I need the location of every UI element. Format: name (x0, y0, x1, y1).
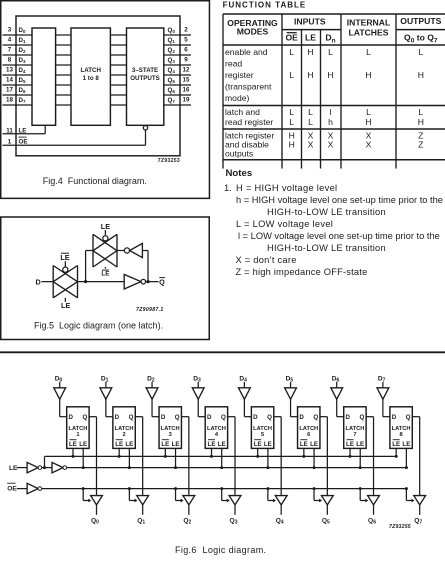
svg-text:Q5: Q5 (322, 518, 330, 526)
feedback inverter U2 (117, 243, 142, 257)
3-state output buffer Q7 (414, 496, 426, 505)
latch 4 LE-bar pin (210, 448, 213, 458)
svg-text:X: X (328, 140, 334, 150)
output Q7 pin 19 wire (164, 96, 191, 105)
svg-text:5: 5 (261, 432, 264, 438)
svg-text:Q: Q (359, 414, 364, 421)
svg-text:LE: LE (300, 441, 308, 448)
svg-text:18: 18 (6, 96, 13, 103)
table mode texts (225, 47, 274, 158)
latch 6 LE pin (313, 448, 316, 469)
svg-text:D0: D0 (19, 27, 26, 34)
input buffer D1 (100, 375, 112, 399)
latch 7 (344, 407, 366, 449)
TG2 LE-bar control (101, 267, 109, 277)
svg-text:Q3: Q3 (230, 518, 238, 526)
svg-text:1.: 1. (224, 183, 232, 193)
wire buffer to latch row 3 (56, 64, 71, 66)
net OE (42, 488, 407, 490)
latch 2 LE-bar pin (118, 448, 121, 458)
svg-text:Dn: Dn (325, 32, 335, 44)
3-state outputs block (127, 28, 164, 125)
output Q4 node (276, 505, 284, 526)
OE enable tap Q4 (266, 487, 276, 502)
input D0 pin 3 wire (3, 26, 33, 35)
wire buffer to latch row 4 (56, 74, 71, 76)
output Q2 node (183, 505, 191, 526)
wire latch 3 Q to output buffer (181, 417, 188, 496)
output Q3 pin 9 wire (164, 56, 191, 65)
svg-text:LATCH: LATCH (207, 426, 226, 432)
svg-text:7: 7 (353, 432, 356, 438)
3-state output buffer Q5 (321, 496, 333, 505)
marking 7Z90987.1 (136, 307, 164, 313)
figure frame top edge Fig.6 (0, 351, 445, 353)
OE input pin 1 with inversion bubble (3, 126, 148, 146)
table data row 3 (289, 131, 424, 150)
svg-text:D: D (207, 414, 212, 421)
wire latch 5 Q to output buffer (274, 417, 281, 496)
svg-text:LE: LE (19, 127, 27, 134)
svg-text:Q0: Q0 (91, 518, 99, 526)
OE inverter (27, 483, 42, 493)
svg-text:LE: LE (402, 441, 410, 448)
svg-text:(transparent: (transparent (225, 82, 272, 92)
output Q6 node (368, 505, 376, 526)
input buffer D2 (146, 375, 158, 399)
svg-text:D2: D2 (19, 47, 26, 54)
svg-text:L: L (289, 117, 294, 127)
svg-text:LE: LE (9, 465, 18, 472)
wire latch 7 Q to output buffer (366, 417, 373, 496)
svg-text:LE: LE (69, 441, 77, 448)
svg-text:Q1: Q1 (168, 37, 176, 44)
svg-text:D: D (36, 277, 41, 286)
svg-text:L: L (366, 47, 371, 57)
LE input pin 11 (3, 125, 46, 134)
wire TG1 output to inverter (78, 280, 125, 283)
LE inverter 2 (52, 462, 67, 472)
svg-text:LE: LE (161, 441, 169, 448)
input buffer D7 (377, 375, 389, 399)
svg-text:14: 14 (6, 76, 13, 83)
svg-text:2: 2 (122, 432, 125, 438)
wire latch 8 Q to output buffer (412, 417, 419, 496)
marking 7Z93253 (158, 158, 180, 164)
svg-text:Q4: Q4 (276, 518, 284, 526)
input buffer D0 (54, 375, 66, 399)
svg-text:LE: LE (208, 441, 216, 448)
latch 6 (298, 407, 320, 449)
svg-text:7: 7 (8, 46, 12, 53)
latch 1 LE pin (82, 448, 85, 469)
svg-text:LE: LE (218, 441, 226, 448)
wire latch to 3-state row 2 (110, 54, 126, 56)
svg-text:D0: D0 (55, 375, 63, 383)
svg-text:8: 8 (400, 432, 403, 438)
marking 7Z93255 (389, 524, 411, 530)
output inverter U3 (124, 274, 145, 289)
latch 8 LE-bar pin (395, 448, 398, 458)
OE enable tap Q3 (220, 487, 230, 502)
svg-text:15: 15 (183, 76, 190, 83)
functional diagram outer box (16, 16, 180, 156)
svg-text:D2: D2 (147, 375, 155, 383)
transmission gate TG1 (data input) (53, 266, 77, 298)
svg-text:l: l (330, 107, 332, 117)
svg-text:h: h (328, 117, 333, 127)
svg-text:INTERNAL: INTERNAL (347, 17, 390, 27)
svg-text:Q2: Q2 (168, 47, 176, 54)
output Q2 pin 6 wire (164, 46, 191, 55)
svg-text:D4: D4 (19, 67, 26, 74)
svg-text:LATCH: LATCH (161, 426, 180, 432)
3-state output buffer Q3 (229, 496, 241, 505)
svg-text:MODES: MODES (237, 26, 269, 36)
caption Fig.6 (175, 545, 266, 555)
wire D5 to latch (291, 399, 298, 416)
svg-text:Fig.6 Logic diagram.: Fig.6 Logic diagram. (175, 545, 266, 555)
svg-text:1 to 8: 1 to 8 (83, 75, 100, 82)
table header texts (227, 16, 441, 44)
notes heading (226, 168, 253, 179)
svg-text:LE: LE (61, 301, 70, 310)
svg-text:latch and: latch and (225, 107, 260, 117)
svg-text:Q: Q (129, 414, 134, 421)
OE enable tap Q1 (128, 487, 138, 502)
svg-text:H: H (307, 47, 313, 57)
wire between LE inverters (42, 467, 52, 469)
svg-text:H = HIGH voltage level: H = HIGH voltage level (236, 183, 337, 193)
wire buffer to latch row 1 (56, 44, 71, 46)
notes text (224, 183, 443, 277)
svg-text:H: H (418, 70, 424, 80)
latch 2 LE pin (128, 448, 131, 469)
TG2 LE control with bubble (101, 222, 110, 241)
svg-text:LE: LE (79, 441, 87, 448)
input D6 pin 17 wire (3, 86, 33, 95)
node Q-bar output (146, 277, 166, 286)
svg-text:L: L (289, 70, 294, 80)
svg-text:Q7: Q7 (168, 97, 176, 104)
svg-text:D5: D5 (19, 77, 26, 84)
svg-text:3: 3 (169, 432, 172, 438)
wire latch 6 Q to output buffer (320, 417, 327, 496)
svg-text:L: L (418, 47, 423, 57)
svg-text:D5: D5 (286, 375, 294, 383)
node D input (36, 277, 54, 286)
OE enable tap Q2 (174, 487, 184, 502)
wire latch 2 Q to output buffer (135, 417, 142, 496)
svg-text:LATCH: LATCH (80, 67, 101, 74)
OE enable tap Q5 (313, 487, 323, 502)
svg-text:OUTPUTS: OUTPUTS (130, 75, 160, 82)
svg-text:LATCH: LATCH (253, 426, 272, 432)
svg-text:Q: Q (221, 414, 226, 421)
svg-text:OE: OE (285, 32, 298, 42)
wire node to TG2 (86, 251, 93, 282)
svg-text:9: 9 (184, 56, 188, 63)
latch 4 LE pin (220, 448, 223, 469)
OE input node (7, 483, 27, 492)
input D7 pin 18 wire (3, 96, 33, 105)
function table grid (223, 14, 445, 169)
output Q4 pin 12 wire (164, 66, 191, 75)
svg-text:19: 19 (183, 96, 190, 103)
latch 3 LE-bar pin (164, 448, 167, 458)
svg-text:Q: Q (175, 414, 180, 421)
input D5 pin 14 wire (3, 76, 33, 85)
table data row 2 (289, 107, 424, 127)
svg-text:1: 1 (76, 432, 79, 438)
svg-text:Q0: Q0 (168, 27, 176, 34)
svg-text:5: 5 (184, 36, 188, 43)
svg-text:OUTPUTS: OUTPUTS (400, 16, 441, 26)
wire latch to 3-state row 7 (110, 104, 126, 106)
3-state output buffer Q2 (183, 496, 195, 505)
TG1 LE control (61, 298, 70, 310)
svg-text:HIGH-to-LOW LE transition: HIGH-to-LOW LE transition (267, 243, 386, 253)
wire latch to 3-state row 6 (110, 94, 126, 96)
caption Fig.4 (43, 176, 147, 186)
svg-text:INPUTS: INPUTS (294, 17, 326, 27)
svg-text:L = LOW voltage level: L = LOW voltage level (236, 219, 333, 229)
svg-text:FUNCTION TABLE: FUNCTION TABLE (223, 0, 307, 9)
svg-text:D: D (115, 414, 120, 421)
svg-text:HIGH-to-LOW LE transition: HIGH-to-LOW LE transition (267, 207, 386, 217)
wire D7 to latch (383, 399, 390, 416)
svg-text:Q6: Q6 (368, 518, 376, 526)
svg-text:Q6: Q6 (168, 87, 176, 94)
output Q7 node (414, 505, 422, 526)
OE enable tap Q6 (359, 487, 369, 502)
svg-text:D: D (69, 414, 74, 421)
svg-text:Q: Q (406, 414, 411, 421)
svg-text:D3: D3 (193, 375, 201, 383)
wire D4 to latch (244, 399, 251, 416)
figure frame Fig.4 (1, 1, 210, 199)
svg-text:LE: LE (356, 441, 364, 448)
svg-text:LE: LE (172, 441, 180, 448)
output Q1 node (137, 505, 145, 526)
input D2 pin 7 wire (3, 46, 33, 55)
svg-text:h = HIGH voltage level one set: h = HIGH voltage level one set-up time p… (236, 195, 443, 205)
svg-text:LATCH: LATCH (68, 426, 87, 432)
input buffer D4 (238, 375, 250, 399)
wire D6 to latch (337, 399, 344, 416)
svg-text:Q2: Q2 (183, 518, 191, 526)
svg-text:LE: LE (101, 222, 110, 231)
LE input node (9, 465, 27, 472)
svg-text:Z: Z (418, 140, 423, 150)
svg-text:Q3: Q3 (168, 57, 176, 64)
latch 5 LE-bar pin (256, 448, 259, 458)
svg-text:Q: Q (159, 277, 165, 286)
svg-text:D6: D6 (19, 87, 26, 94)
svg-text:enable and: enable and (225, 47, 268, 57)
svg-text:L: L (289, 47, 294, 57)
net LE-bar (43, 456, 396, 469)
transmission gate TG2 (feedback) (93, 234, 117, 267)
output Q6 pin 16 wire (164, 86, 191, 95)
svg-text:Q0 to Q7: Q0 to Q7 (404, 32, 438, 44)
svg-text:LE: LE (60, 253, 69, 262)
svg-text:L: L (328, 47, 333, 57)
svg-text:X = don’t care: X = don’t care (236, 255, 297, 265)
svg-text:L: L (308, 107, 313, 117)
latch 7 LE-bar pin (349, 448, 352, 458)
svg-text:Fig.5 Logic diagram (one latc: Fig.5 Logic diagram (one latch). (34, 320, 163, 330)
svg-text:L: L (308, 117, 313, 127)
svg-text:11: 11 (6, 127, 13, 134)
svg-text:1: 1 (8, 138, 12, 145)
svg-text:D3: D3 (19, 57, 26, 64)
output Q5 pin 15 wire (164, 76, 191, 85)
svg-text:LATCH: LATCH (345, 426, 364, 432)
svg-text:D4: D4 (239, 375, 247, 383)
svg-text:3–STATE: 3–STATE (132, 67, 158, 74)
input buffer D5 (285, 375, 297, 399)
svg-text:H: H (365, 70, 371, 80)
3-state output buffer Q4 (275, 496, 287, 505)
svg-text:8: 8 (8, 56, 12, 63)
svg-text:H: H (307, 70, 313, 80)
latch 1 LE-bar pin (72, 448, 75, 458)
svg-text:LE: LE (125, 441, 133, 448)
svg-text:register: register (225, 70, 254, 80)
svg-text:7Z93255: 7Z93255 (389, 524, 411, 530)
svg-text:LE: LE (392, 441, 400, 448)
latch 1 (67, 407, 89, 449)
TG1 LE-bar control with bubble (60, 253, 69, 272)
latch 7 LE pin (359, 448, 362, 469)
output Q3 node (230, 505, 238, 526)
svg-text:Q7: Q7 (414, 518, 422, 526)
svg-text:H: H (327, 70, 333, 80)
wire buffer to latch row 5 (56, 84, 71, 86)
svg-text:2: 2 (184, 26, 188, 33)
figure frame Fig.5 (1, 217, 210, 340)
wire D2 to latch (152, 399, 159, 416)
wire latch to 3-state row 1 (110, 44, 126, 46)
svg-text:D: D (299, 414, 304, 421)
svg-text:Z = high impedance OFF-state: Z = high impedance OFF-state (236, 267, 368, 277)
wire buffer to latch row 0 (56, 34, 71, 36)
OE enable tap Q7 (405, 487, 415, 502)
svg-text:l = LOW voltage level one set-: l = LOW voltage level one set-up time pr… (238, 231, 440, 241)
wire D3 to latch (198, 399, 205, 416)
input buffer D3 (192, 375, 204, 399)
svg-text:12: 12 (183, 66, 190, 73)
svg-text:D6: D6 (332, 375, 340, 383)
svg-text:L: L (366, 107, 371, 117)
svg-text:read: read (225, 59, 242, 69)
input D1 pin 4 wire (3, 36, 33, 45)
svg-text:7Z93253: 7Z93253 (158, 158, 180, 164)
output Q5 node (322, 505, 330, 526)
svg-text:4: 4 (8, 36, 12, 43)
svg-text:Q5: Q5 (168, 77, 176, 84)
svg-text:Fig.4 Functional diagram.: Fig.4 Functional diagram. (43, 176, 147, 186)
svg-text:LE: LE (305, 32, 316, 42)
wire latch to 3-state row 4 (110, 74, 126, 76)
wire latch to 3-state row 0 (110, 34, 126, 36)
svg-text:D1: D1 (101, 375, 109, 383)
latch 8 LE pin (405, 448, 408, 469)
wire D0 to latch (60, 399, 67, 416)
svg-text:LE: LE (101, 270, 109, 277)
svg-text:LATCHES: LATCHES (349, 27, 389, 37)
wire D1 to latch (106, 399, 113, 416)
feedback wire (142, 251, 149, 284)
svg-text:16: 16 (183, 86, 190, 93)
svg-text:Q: Q (313, 414, 318, 421)
latch 5 (251, 407, 273, 449)
svg-text:LE: LE (115, 441, 123, 448)
wire latch to 3-state row 5 (110, 84, 126, 86)
svg-text:D: D (161, 414, 166, 421)
svg-text:LATCH: LATCH (299, 426, 318, 432)
output Q1 pin 5 wire (164, 36, 191, 45)
output Q0 pin 2 wire (164, 26, 191, 35)
svg-text:D7: D7 (378, 375, 386, 383)
svg-text:D: D (346, 414, 351, 421)
svg-text:X: X (308, 140, 314, 150)
svg-text:Q1: Q1 (137, 518, 145, 526)
heading FUNCTION TABLE (223, 0, 307, 9)
svg-text:D: D (253, 414, 258, 421)
svg-text:13: 13 (6, 66, 13, 73)
net LE (67, 467, 407, 469)
svg-text:H: H (365, 117, 371, 127)
svg-text:OE: OE (7, 485, 17, 492)
input buffer block (32, 28, 56, 125)
svg-text:mode): mode) (225, 93, 249, 103)
svg-text:D7: D7 (19, 97, 26, 104)
latch block LATCH 1 to 8 (71, 28, 110, 125)
svg-text:6: 6 (184, 46, 188, 53)
caption Fig.5 (34, 320, 163, 330)
svg-text:H: H (418, 117, 424, 127)
svg-text:X: X (366, 140, 372, 150)
svg-text:LE: LE (346, 441, 354, 448)
LE inverter 1 (27, 462, 42, 472)
3-state output buffer Q6 (368, 496, 380, 505)
svg-text:3: 3 (8, 26, 12, 33)
svg-text:6: 6 (307, 432, 310, 438)
table data row 1 (289, 47, 424, 80)
3-state output buffer Q1 (137, 496, 149, 505)
svg-text:L: L (289, 107, 294, 117)
wire buffer to latch row 2 (56, 54, 71, 56)
latch 8 (390, 407, 412, 449)
output Q0 node (91, 505, 99, 526)
svg-text:outputs: outputs (225, 149, 253, 159)
svg-text:D: D (392, 414, 397, 421)
svg-text:LATCH: LATCH (392, 426, 411, 432)
latch 6 LE-bar pin (302, 448, 305, 458)
svg-text:17: 17 (6, 86, 13, 93)
wire latch to 3-state row 3 (110, 64, 126, 66)
OE enable tap Q0 (82, 487, 92, 502)
latch 2 (113, 407, 135, 449)
input D3 pin 8 wire (3, 56, 33, 65)
wire buffer to latch row 7 (56, 104, 71, 106)
input D4 pin 13 wire (3, 66, 33, 75)
svg-text:Q: Q (267, 414, 272, 421)
svg-text:LE: LE (254, 441, 262, 448)
latch 5 LE pin (266, 448, 269, 469)
